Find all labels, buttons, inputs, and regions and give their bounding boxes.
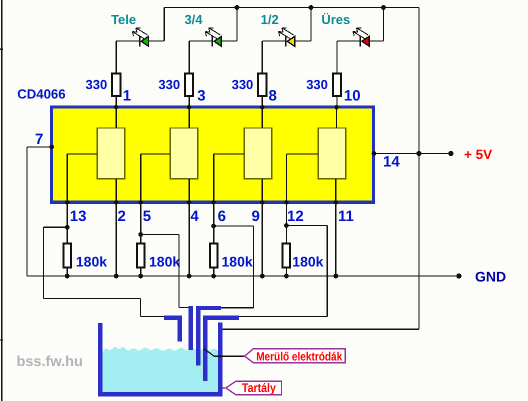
- svg-text:11: 11: [338, 208, 354, 225]
- callout leader Tartaly: [223, 387, 227, 389]
- node output GND 0: [114, 274, 119, 279]
- svg-text:14: 14: [383, 154, 400, 171]
- svg-text:13: 13: [70, 208, 87, 225]
- wire left stub lower: [0, 339, 3, 340]
- wire LED D3 1/2 anode-side: [294, 8, 311, 42]
- electrode E2 (3/4): [188, 306, 193, 350]
- label LED D4 Ures: [321, 12, 350, 27]
- label LED D1 Tele: [111, 12, 136, 27]
- label R7 180k: [222, 254, 253, 270]
- svg-text:5: 5: [143, 208, 151, 225]
- wire right +5V vertical: [418, 8, 420, 330]
- wire pin5 branch to electrode E2: [141, 235, 189, 308]
- resistor R6 180k: [137, 243, 145, 267]
- svg-text:180k: 180k: [76, 254, 107, 270]
- wire SW-C control: [214, 154, 245, 202]
- wire LED D2 3/4 anode-side: [221, 8, 237, 42]
- label R8 180k: [292, 254, 323, 270]
- wire output pin to GND 3: [335, 202, 337, 276]
- LED D1 Tele: [132, 28, 148, 47]
- label R5 180k: [76, 254, 107, 270]
- svg-text:1/2: 1/2: [261, 12, 279, 27]
- switch SW-B box: [170, 128, 198, 179]
- node pin bottom x116.2: [114, 200, 118, 204]
- tank right wall: [218, 322, 223, 396]
- electrode E3 (1/2): [196, 306, 221, 366]
- wire SW-D input: [336, 109, 338, 128]
- node pin top 1: [187, 105, 191, 109]
- wire output pin to GND 0: [115, 202, 117, 276]
- node rail-j1: [235, 5, 240, 10]
- label U1 CD4066: [17, 87, 65, 102]
- node pin14: [372, 151, 377, 156]
- node rail-j3: [381, 5, 386, 10]
- wire LED D4 Ures anode-side: [369, 8, 384, 42]
- svg-text:CD4066: CD4066: [17, 87, 65, 102]
- svg-text:Merülő elektródák: Merülő elektródák: [256, 350, 342, 364]
- watermark bss.fw.hu: [17, 354, 83, 370]
- svg-text:12: 12: [287, 208, 304, 225]
- svg-text:6: 6: [218, 208, 226, 225]
- svg-text:180k: 180k: [292, 254, 323, 270]
- wire GND rail: [27, 275, 459, 277]
- wire SW-D control: [286, 154, 318, 202]
- wire LED D2 3/4 cathode-side: [189, 40, 212, 42]
- wire IC to R7: [213, 202, 215, 243]
- node pin top 2: [260, 105, 264, 109]
- wire output pin to GND 2: [261, 202, 263, 276]
- wire R4 to IC: [336, 96, 338, 108]
- wire SW-B input: [188, 109, 190, 128]
- resistor R2 330: [185, 74, 193, 96]
- svg-text:2: 2: [118, 208, 126, 225]
- wire LED2 to R2: [188, 41, 190, 74]
- svg-text:330: 330: [158, 77, 180, 92]
- svg-text:9: 9: [252, 208, 260, 225]
- wire SW-A input: [115, 109, 117, 128]
- node output GND 3: [333, 274, 338, 279]
- label R1 330: [85, 77, 107, 92]
- tank bottom: [98, 392, 223, 397]
- wire LED D1 Tele anode-side: [148, 8, 164, 42]
- node +5V junction: [416, 151, 421, 156]
- wire LED3 to R3: [261, 41, 263, 74]
- svg-text:330: 330: [232, 77, 254, 92]
- op-amp U1 CD4066 body: [52, 107, 374, 202]
- svg-text:+ 5V: + 5V: [464, 147, 492, 162]
- node R6 GND: [138, 274, 143, 279]
- label GND: [475, 269, 506, 285]
- wire output pin to GND 1: [188, 202, 190, 276]
- switch SW-C box: [244, 128, 272, 179]
- tank left wall: [98, 323, 103, 397]
- label pin 1: [123, 87, 131, 104]
- node output GND 2: [260, 274, 265, 279]
- label pin 7: [35, 131, 43, 148]
- wire left stub upper: [0, 49, 3, 50]
- LED D3 1/2: [279, 28, 295, 47]
- water: [103, 347, 218, 392]
- LED D2 3/4: [205, 28, 221, 47]
- resistor R5 180k: [63, 243, 70, 267]
- svg-text:3/4: 3/4: [184, 12, 203, 27]
- callout box Tartaly: [226, 381, 282, 395]
- wire pin12 branch to electrode E4: [239, 226, 327, 317]
- switch SW-A box: [97, 128, 125, 179]
- node pin bottom x67.2: [65, 200, 69, 204]
- node +5V terminal: [448, 151, 453, 156]
- label pin 10: [344, 87, 361, 104]
- label pin 14: [383, 154, 400, 171]
- svg-text:7: 7: [35, 131, 43, 148]
- callout leader Merulo: [204, 349, 245, 356]
- svg-text:1: 1: [123, 87, 131, 104]
- node pin bottom x140.7: [139, 200, 143, 204]
- node pin7: [50, 145, 55, 150]
- svg-text:330: 330: [306, 77, 328, 92]
- wire R8 to GND: [285, 267, 287, 276]
- resistor R7 180k: [210, 243, 218, 267]
- node R8 top junction: [284, 223, 289, 228]
- wire SW-B output: [188, 179, 190, 202]
- node R5 top junction: [65, 225, 70, 230]
- wire LED D4 Ures cathode-side: [337, 40, 360, 42]
- switch SW-D box: [318, 128, 346, 179]
- electrode E4 (Ures): [203, 315, 239, 381]
- label R2 330: [158, 77, 180, 92]
- node pin bottom x213.6: [211, 200, 215, 204]
- wire LED D1 Tele cathode-side: [116, 40, 139, 42]
- wire +5V to tank: [223, 328, 419, 330]
- wire SW-B control: [141, 154, 171, 202]
- node rail-j2: [309, 5, 314, 10]
- svg-text:4: 4: [190, 208, 199, 225]
- wire SW-A control: [67, 154, 97, 202]
- node pin bottom x335.8: [334, 200, 338, 204]
- label +5V: [464, 147, 492, 162]
- wire LED D3 1/2 cathode-side: [262, 40, 285, 42]
- LED D4 Ures: [353, 28, 369, 47]
- svg-text:330: 330: [85, 77, 107, 92]
- resistor R4 330: [333, 74, 341, 96]
- wire IC to R6: [140, 202, 142, 243]
- node R6 top junction: [138, 232, 143, 237]
- wire R2 to IC: [188, 96, 190, 108]
- wire SW-C input: [261, 109, 263, 128]
- node pin bottom x286.4: [284, 200, 288, 204]
- node GND terminal: [456, 273, 461, 278]
- label pin 3: [197, 87, 205, 104]
- node R7 top junction: [211, 224, 216, 229]
- svg-text:Tele: Tele: [111, 12, 136, 27]
- node pin top 0: [114, 105, 118, 109]
- label pin 9: [252, 208, 260, 225]
- callout box Merulo elektrodak: [245, 349, 346, 364]
- svg-text:180k: 180k: [149, 254, 180, 270]
- svg-text:Tartály: Tartály: [242, 381, 276, 395]
- wire pin14 +5V: [375, 153, 451, 155]
- electrode E1 (Tele): [164, 315, 182, 341]
- wire pin13 branch to electrode E1: [44, 227, 166, 316]
- wire left-border vertical: [1, 0, 3, 401]
- wire pin7 to GND rail: [27, 147, 51, 276]
- wire SW-A output: [115, 179, 117, 202]
- wire R7 to GND: [213, 267, 215, 276]
- svg-text:bss.fw.hu: bss.fw.hu: [17, 354, 83, 370]
- svg-text:8: 8: [269, 87, 277, 104]
- wire R5 to GND: [66, 267, 68, 276]
- label pin 11: [338, 208, 354, 225]
- node pin bottom x189.1: [187, 200, 191, 204]
- label R4 330: [306, 77, 328, 92]
- label pin 5: [143, 208, 151, 225]
- wire pin6 branch to electrode E3: [214, 226, 254, 308]
- node R8 GND: [284, 274, 289, 279]
- node output GND 1: [187, 274, 192, 279]
- wire R6 to GND: [140, 267, 142, 276]
- wire IC to R5: [66, 202, 68, 243]
- resistor R1 330: [112, 74, 120, 96]
- resistor R8 180k: [283, 243, 291, 267]
- svg-text:3: 3: [197, 87, 205, 104]
- wire SW-C output: [261, 179, 263, 202]
- label pin 4: [190, 208, 199, 225]
- wire R1 to IC: [115, 96, 117, 108]
- wire LED4 to R4: [336, 41, 338, 74]
- label pin 12: [287, 208, 304, 225]
- wire top +5V rail: [164, 7, 419, 9]
- label LED D3 1/2: [261, 12, 279, 27]
- svg-text:10: 10: [344, 87, 361, 104]
- resistor R3 330: [258, 74, 266, 96]
- label pin 8: [269, 87, 277, 104]
- label R3 330: [232, 77, 254, 92]
- label LED D2 3/4: [184, 12, 203, 27]
- label R6 180k: [149, 254, 180, 270]
- wire LED1 to R1: [115, 41, 117, 74]
- wire R3 to IC: [261, 96, 263, 108]
- label pin 2: [118, 208, 126, 225]
- node R7 GND: [211, 274, 216, 279]
- svg-text:180k: 180k: [222, 254, 253, 270]
- node pin bottom x262.3: [260, 200, 264, 204]
- wire SW-D output: [335, 179, 337, 202]
- wire IC to R8: [285, 202, 287, 243]
- svg-text:Üres: Üres: [321, 12, 350, 27]
- label pin 6: [218, 208, 226, 225]
- node pin top 3: [334, 105, 338, 109]
- node R5 GND: [65, 274, 70, 279]
- label pin 13: [70, 208, 87, 225]
- svg-text:GND: GND: [475, 269, 506, 285]
